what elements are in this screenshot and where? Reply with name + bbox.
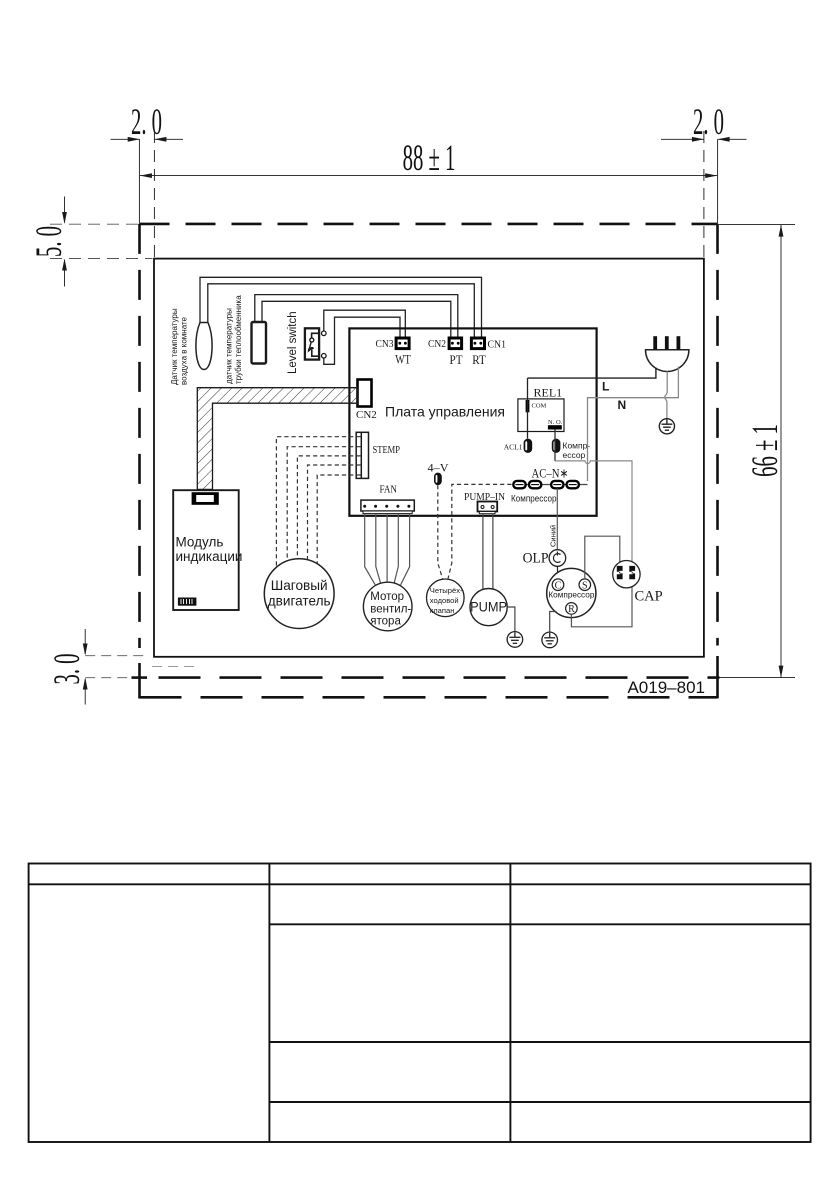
svg-text:5. 0: 5. 0 — [29, 226, 70, 257]
svg-text:FAN: FAN — [380, 485, 398, 496]
svg-text:клапан: клапан — [430, 606, 455, 615]
svg-text:Level switch: Level switch — [287, 311, 299, 374]
svg-text:2. 0: 2. 0 — [693, 102, 724, 143]
svg-text:Четырёх-: Четырёх- — [430, 586, 463, 595]
svg-text:Мотор: Мотор — [370, 591, 404, 603]
svg-text:трубки теплообменника: трубки теплообменника — [234, 295, 243, 384]
svg-text:индикации: индикации — [176, 549, 243, 564]
svg-text:ессор: ессор — [563, 450, 586, 460]
svg-text:Датчик температуры: Датчик температуры — [170, 308, 179, 385]
svg-text:N: N — [618, 398, 627, 412]
svg-text:CN1: CN1 — [488, 339, 507, 351]
svg-text:STEMP: STEMP — [373, 445, 401, 456]
svg-text:Компр-: Компр- — [563, 441, 591, 451]
svg-text:Шаговый: Шаговый — [271, 578, 328, 593]
svg-text:ятора: ятора — [370, 616, 401, 628]
svg-text:WT: WT — [395, 352, 411, 367]
svg-text:88 ± 1: 88 ± 1 — [403, 138, 456, 179]
svg-text:RT: RT — [472, 352, 486, 367]
svg-text:COM: COM — [532, 403, 547, 410]
svg-text:CN3: CN3 — [376, 338, 394, 350]
svg-text:L: L — [602, 380, 609, 394]
svg-text:вентил-: вентил- — [370, 603, 411, 615]
svg-text:AC–N∗: AC–N∗ — [532, 466, 569, 481]
svg-text:Компрессор: Компрессор — [511, 494, 557, 504]
svg-text:REL1: REL1 — [534, 386, 563, 400]
svg-text:A019–801: A019–801 — [627, 678, 705, 697]
svg-text:OLP: OLP — [523, 551, 549, 567]
svg-text:двигатель: двигатель — [268, 594, 331, 609]
svg-text:Плата управления: Плата управления — [385, 404, 505, 420]
svg-text:PUMP: PUMP — [470, 600, 507, 615]
svg-text:Модуль: Модуль — [176, 535, 224, 550]
svg-text:CN2: CN2 — [428, 338, 446, 350]
svg-text:ACL1: ACL1 — [504, 443, 523, 452]
svg-text:Компрессор: Компрессор — [548, 591, 594, 600]
svg-text:4–V: 4–V — [428, 461, 449, 475]
svg-text:ходовой: ходовой — [430, 596, 459, 605]
svg-text:CAP: CAP — [635, 589, 663, 605]
svg-text:датчик температуры: датчик температуры — [225, 308, 234, 384]
svg-text:66 ± 1: 66 ± 1 — [745, 424, 786, 477]
svg-text:N. O.: N. O. — [548, 419, 563, 426]
svg-text:PT: PT — [450, 352, 463, 367]
svg-text:воздуха в комнате: воздуха в комнате — [180, 316, 189, 385]
svg-text:Синий: Синий — [549, 525, 558, 547]
svg-text:2. 0: 2. 0 — [131, 102, 162, 143]
svg-text:R: R — [568, 604, 575, 615]
svg-text:CN2: CN2 — [356, 409, 377, 421]
svg-text:3. 0: 3. 0 — [47, 653, 88, 684]
